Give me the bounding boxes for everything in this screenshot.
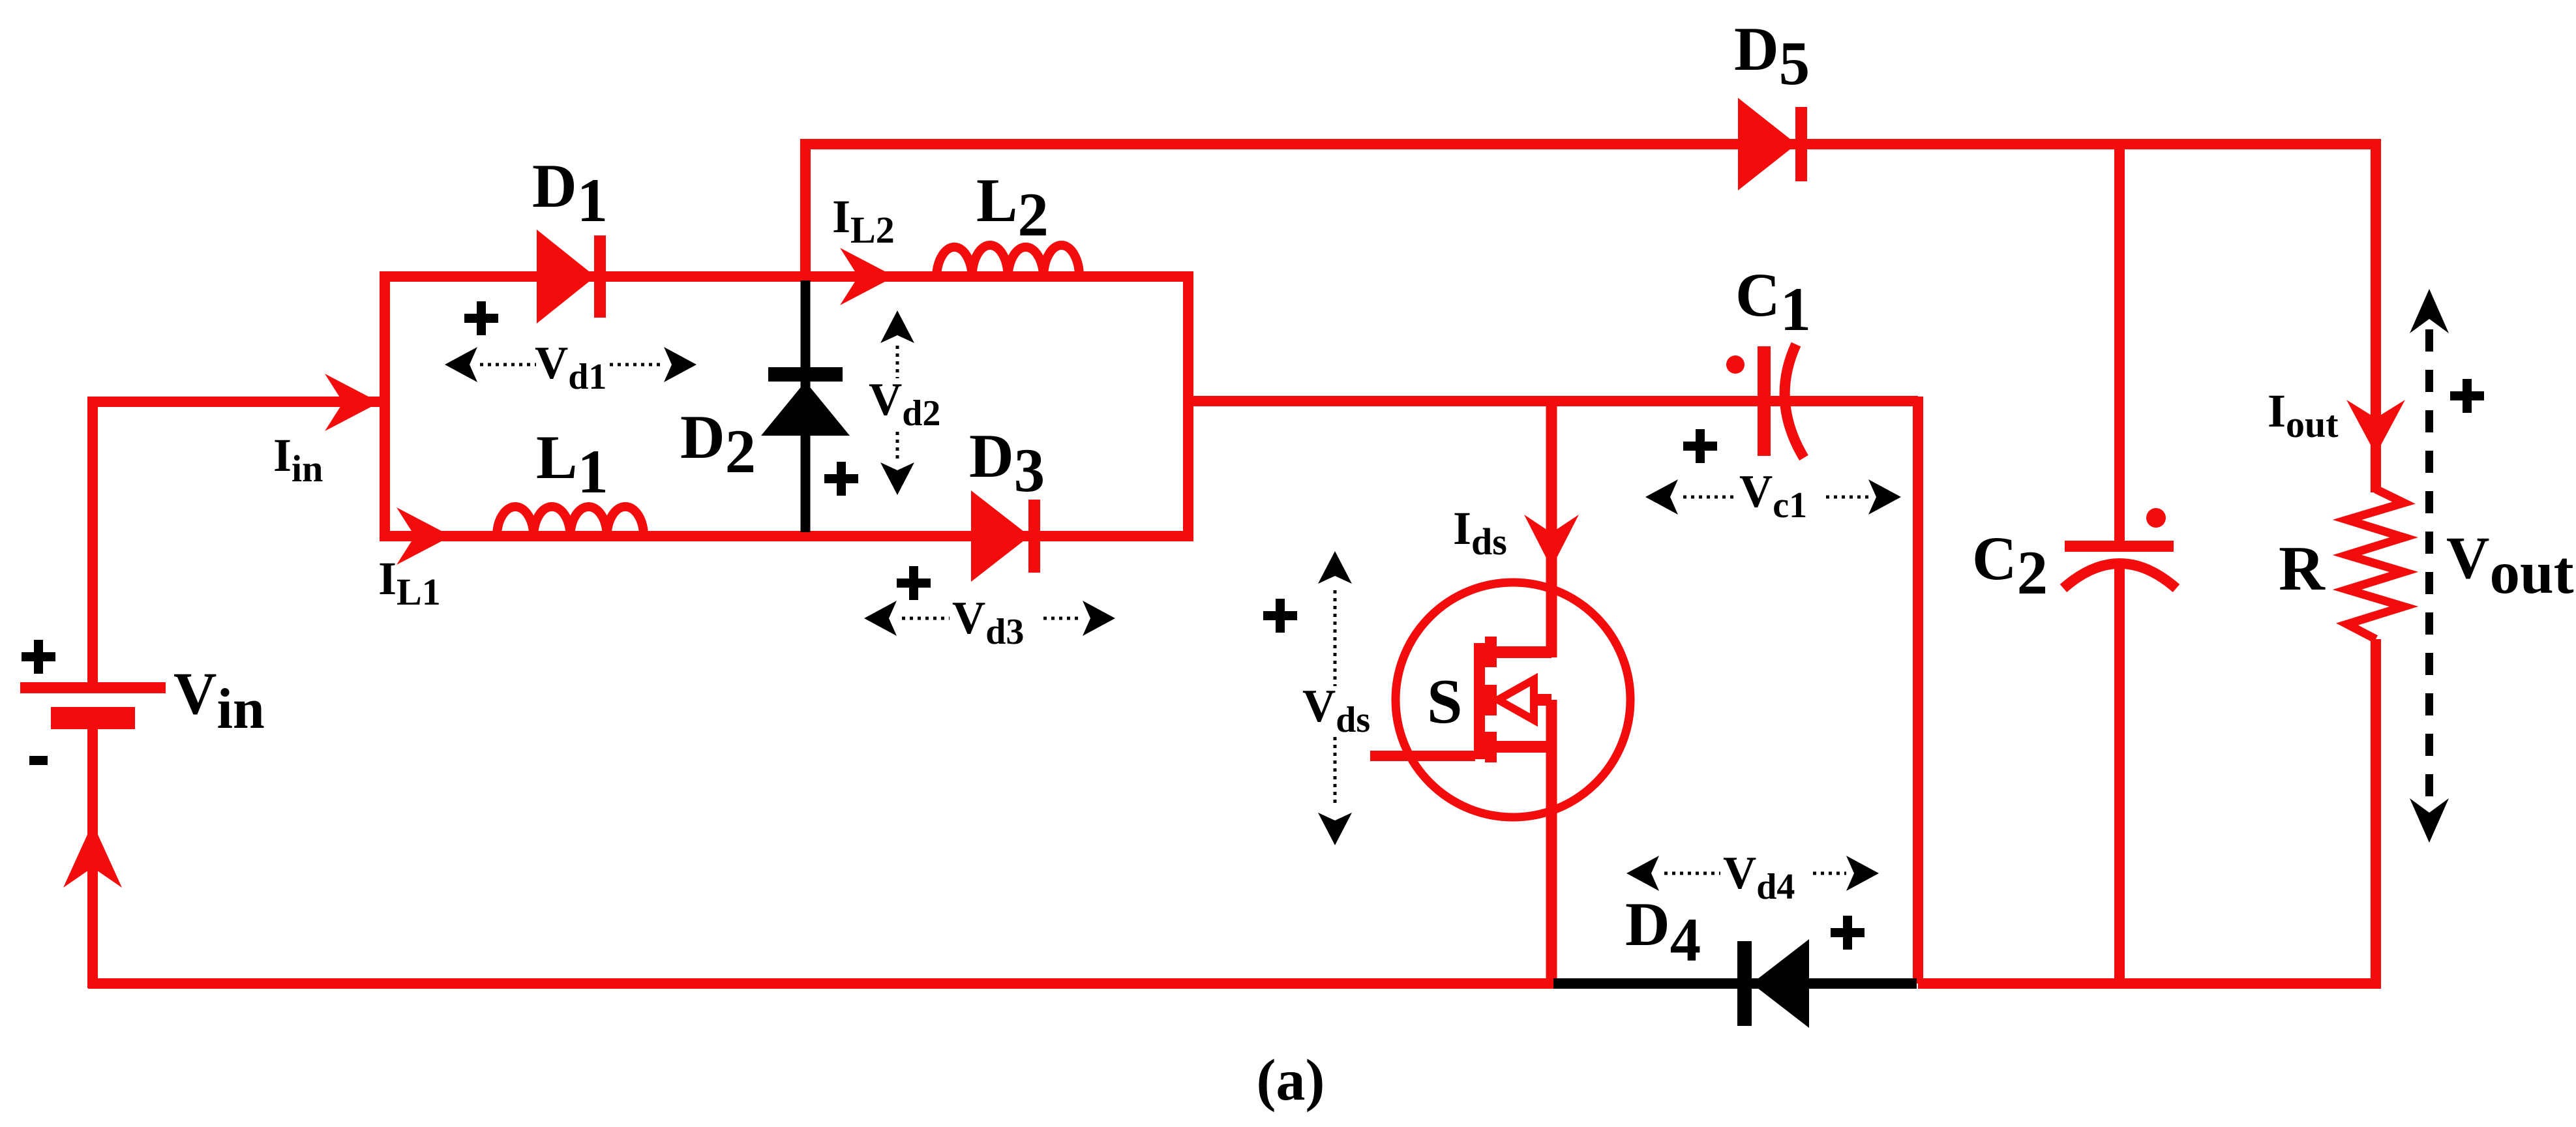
arrow Iin current (red dart on input wire)	[325, 374, 380, 431]
MOSFET channel ticks	[1485, 637, 1497, 667]
svg-text:Iin: Iin	[273, 429, 323, 490]
arrow Vc1 (dashed measurement arrow)	[1645, 479, 1678, 515]
svg-text:D4: D4	[1625, 890, 1701, 974]
svg-text:Vd3: Vd3	[952, 593, 1024, 652]
plus of Vds	[1263, 599, 1297, 633]
inductor L1 coil	[497, 507, 644, 536]
svg-text:D1: D1	[532, 151, 608, 235]
wire: black D2 vertical	[801, 280, 811, 532]
wire: black D4 segment of bottom bus	[1553, 978, 1917, 989]
MOSFET body arrow	[1498, 680, 1534, 720]
battery Vin plates	[20, 682, 166, 693]
arrow Vd1 (dashed measurement arrow)	[445, 347, 477, 382]
plus of Vd4	[1831, 916, 1865, 950]
svg-text:IL2: IL2	[832, 190, 895, 251]
wire: battery bottom to bottom-left corner to MOSFET source foot	[88, 729, 1553, 988]
arrow Vd3 (dashed measurement arrow)	[864, 601, 897, 636]
svg-text:L1: L1	[536, 423, 608, 506]
svg-text:D2: D2	[680, 402, 756, 486]
wire: bottom right + resistor lower lead	[1918, 639, 2376, 984]
diode D3	[971, 490, 1030, 582]
plus of Vd2	[824, 462, 858, 496]
wire: MOSFET drain vertical	[1546, 397, 1557, 657]
plus of Vd3	[897, 566, 931, 600]
svg-text:Vds: Vds	[1302, 681, 1370, 740]
svg-text:D3: D3	[969, 421, 1045, 505]
battery + sign	[22, 640, 55, 674]
svg-text:C2: C2	[1972, 524, 2048, 607]
wire: MOSFET gate lead	[1370, 751, 1475, 761]
wire: D1 branch horizontal	[380, 271, 1188, 282]
svg-text:Vd2: Vd2	[869, 374, 940, 434]
wire: middle branch to C1	[1188, 396, 1918, 406]
inductor L2 coil	[936, 245, 1079, 277]
diode D1	[537, 230, 595, 323]
MOSFET drain stub	[1491, 646, 1551, 658]
wire: L1/D3 branch horizontal	[380, 531, 1188, 541]
svg-text:D5: D5	[1734, 14, 1810, 98]
svg-text:Iout: Iout	[2268, 385, 2339, 445]
svg-text:(a): (a)	[1257, 1048, 1325, 1113]
svg-text:IL1: IL1	[378, 552, 441, 613]
arrow Vd2 (dashed measurement arrow vertical)	[880, 310, 914, 343]
MOSFET source stub	[1491, 741, 1551, 753]
wire: input junction vertical	[380, 271, 390, 541]
wire: D2 top vertical + top bus + right drop to resistor	[805, 144, 2376, 492]
svg-text:C1: C1	[1735, 260, 1811, 344]
wire: C2 lower vertical	[2114, 563, 2125, 984]
diode D2 (black) symbol	[768, 367, 843, 382]
wire: C2 upper vertical	[2114, 140, 2125, 541]
plus of C1	[1683, 429, 1717, 463]
svg-text:Vin: Vin	[173, 660, 265, 741]
arrow IL1 current	[397, 507, 451, 565]
MOSFET gate bar	[1474, 643, 1485, 759]
arrow Ids current (red dart down)	[1524, 515, 1579, 568]
capacitor C2	[2065, 541, 2174, 552]
svg-text:R: R	[2279, 533, 2326, 604]
svg-text:Vd1: Vd1	[535, 338, 607, 397]
svg-text:S: S	[1427, 667, 1463, 737]
battery - sign	[29, 756, 48, 765]
arrow IL2 current	[840, 248, 895, 305]
MOSFET S circle	[1396, 582, 1630, 817]
wire: C1 right vertical	[1913, 397, 1923, 984]
svg-text:Vout: Vout	[2446, 524, 2574, 607]
wire: L2 right vertical	[1183, 271, 1193, 541]
diode D5	[1738, 98, 1797, 190]
svg-text:Vd4: Vd4	[1723, 848, 1795, 907]
capacitor C1	[1758, 346, 1771, 456]
plus of Vout	[2450, 379, 2484, 413]
wire: MOSFET source vertical to bottom	[1546, 700, 1557, 984]
svg-text:Ids: Ids	[1453, 502, 1507, 563]
svg-text:Vc1: Vc1	[1739, 466, 1807, 526]
wire: input left loop from junction to battery top	[93, 402, 380, 682]
arrow Vd4 (dashed measurement arrow)	[1626, 856, 1659, 891]
plus of Vd1	[464, 301, 498, 335]
arrow Vout (long dashed measurement arrow)	[2410, 289, 2449, 333]
svg-text:L2: L2	[976, 166, 1049, 249]
diode D4 (black) symbol	[1737, 941, 1752, 1026]
arrow Vds (dashed measurement arrow vertical)	[1318, 551, 1352, 584]
resistor R zigzag	[2347, 489, 2404, 639]
arrow Vin loop current (red dart up on left wire)	[63, 823, 122, 888]
arrow Iout current (red dart down)	[2346, 400, 2405, 455]
